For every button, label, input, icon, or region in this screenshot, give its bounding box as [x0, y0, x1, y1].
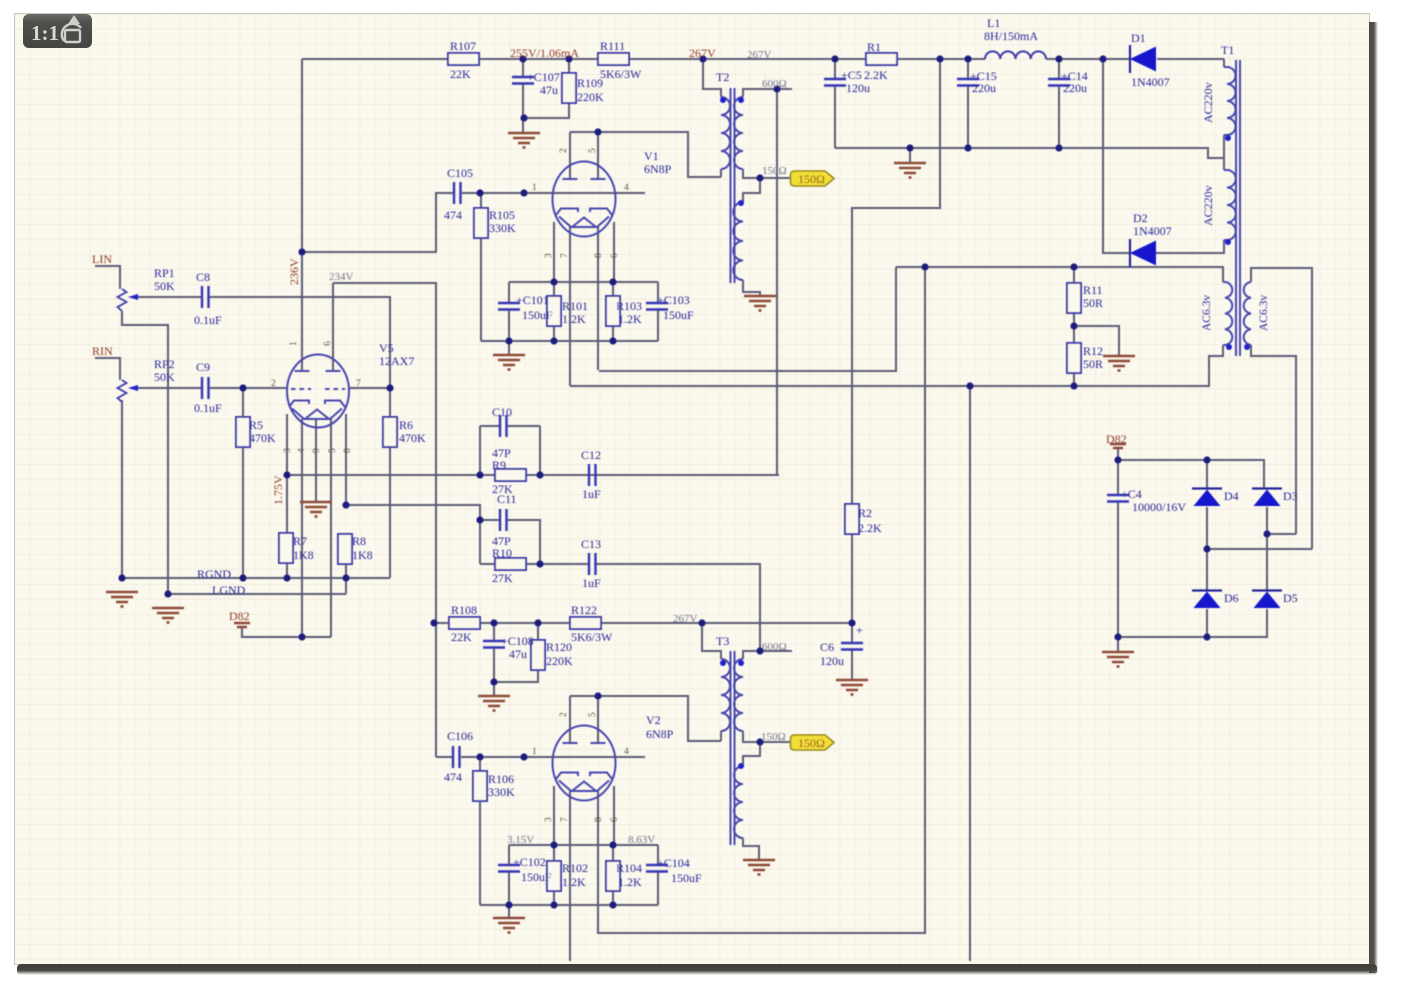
svg-text:50R: 50R: [1083, 296, 1103, 310]
svg-text:220u: 220u: [1063, 81, 1087, 95]
svg-text:267V: 267V: [673, 613, 698, 625]
svg-text:1: 1: [289, 341, 299, 346]
svg-text:2: 2: [559, 148, 569, 153]
svg-text:R107: R107: [450, 39, 476, 53]
svg-text:D5: D5: [1283, 591, 1298, 605]
svg-text:+C103: +C103: [657, 293, 690, 307]
svg-text:AC220v: AC220v: [1201, 185, 1215, 226]
svg-text:8.63V: 8.63V: [628, 834, 655, 846]
svg-text:1K8: 1K8: [293, 548, 314, 562]
svg-text:R103: R103: [616, 299, 642, 313]
svg-text:1N4007: 1N4007: [1131, 75, 1170, 89]
svg-text:50R: 50R: [1083, 357, 1103, 371]
svg-text:150Ω: 150Ω: [761, 731, 786, 743]
svg-text:1.2K: 1.2K: [618, 312, 642, 326]
svg-text:1.2K: 1.2K: [618, 875, 642, 889]
svg-text:234V: 234V: [329, 271, 354, 283]
svg-text:5K6/3W: 5K6/3W: [571, 630, 613, 644]
svg-text:R10: R10: [492, 546, 512, 560]
svg-text:1: 1: [532, 747, 537, 757]
svg-text:R105: R105: [489, 208, 515, 222]
svg-text:0.1uF: 0.1uF: [194, 313, 222, 327]
svg-text:D6: D6: [1224, 591, 1239, 605]
svg-text:150Ω: 150Ω: [798, 172, 825, 186]
svg-text:1N4007: 1N4007: [1133, 224, 1172, 238]
svg-text:4: 4: [624, 183, 629, 193]
svg-text:V2: V2: [646, 713, 661, 727]
svg-text:R101: R101: [562, 299, 588, 313]
svg-text:470K: 470K: [249, 431, 276, 445]
svg-text:120u: 120u: [820, 654, 844, 668]
svg-text:+C108: +C108: [501, 634, 534, 648]
svg-text:1.2K: 1.2K: [562, 875, 586, 889]
svg-text:R106: R106: [488, 772, 514, 786]
svg-text:6N8P: 6N8P: [644, 162, 672, 176]
svg-text:D82: D82: [1106, 432, 1127, 446]
svg-text:C9: C9: [196, 360, 210, 374]
svg-text:9: 9: [312, 448, 322, 453]
svg-text:R9: R9: [492, 458, 506, 472]
svg-text:1.75V: 1.75V: [271, 475, 285, 505]
svg-text:50K: 50K: [154, 279, 175, 293]
svg-text:C106: C106: [447, 729, 473, 743]
svg-text:RP2: RP2: [154, 357, 175, 371]
svg-text:0.1uF: 0.1uF: [194, 401, 222, 415]
svg-text:150uF: 150uF: [522, 308, 553, 322]
svg-text:R5: R5: [249, 418, 263, 432]
svg-text:R2: R2: [858, 506, 872, 520]
svg-text:1: 1: [532, 183, 537, 193]
svg-text:T3: T3: [716, 634, 729, 648]
svg-text:C13: C13: [581, 537, 601, 551]
svg-text:2.2K: 2.2K: [864, 68, 888, 82]
svg-text:22K: 22K: [451, 630, 472, 644]
svg-text:D2: D2: [1133, 211, 1148, 225]
svg-text:RP1: RP1: [154, 266, 175, 280]
svg-text:3: 3: [544, 817, 554, 822]
svg-text:2: 2: [271, 379, 276, 389]
svg-text:D82: D82: [229, 609, 250, 623]
svg-text:T2: T2: [716, 70, 729, 84]
svg-text:330K: 330K: [488, 785, 515, 799]
svg-text:22K: 22K: [450, 67, 471, 81]
svg-text:330K: 330K: [489, 221, 516, 235]
svg-text:4: 4: [624, 747, 629, 757]
svg-text:267V: 267V: [747, 49, 772, 61]
svg-text:C10: C10: [492, 405, 512, 419]
svg-text:1:1: 1:1: [31, 21, 59, 45]
svg-text:470K: 470K: [399, 431, 426, 445]
svg-text:+: +: [856, 623, 863, 637]
svg-text:150Ω: 150Ω: [762, 165, 787, 177]
svg-text:R7: R7: [293, 534, 307, 548]
svg-text:3.15V: 3.15V: [507, 834, 534, 846]
svg-text:V5: V5: [379, 341, 394, 355]
svg-text:R120: R120: [546, 640, 572, 654]
svg-text:+C101: +C101: [516, 293, 549, 307]
svg-text:600Ω: 600Ω: [762, 78, 787, 90]
svg-text:220K: 220K: [546, 654, 573, 668]
svg-text:2: 2: [559, 712, 569, 717]
svg-text:236V: 236V: [287, 258, 301, 285]
svg-text:AC6.3v: AC6.3v: [1201, 295, 1213, 331]
svg-text:600Ω: 600Ω: [762, 641, 787, 653]
svg-text:2.2K: 2.2K: [858, 521, 882, 535]
svg-text:V1: V1: [644, 149, 659, 163]
svg-text:150uF: 150uF: [521, 870, 552, 884]
svg-text:R6: R6: [399, 418, 413, 432]
svg-text:R8: R8: [352, 534, 366, 548]
svg-text:+C102: +C102: [513, 855, 546, 869]
svg-text:R122: R122: [571, 603, 597, 617]
svg-text:47u: 47u: [540, 83, 558, 97]
svg-text:AC220v: AC220v: [1201, 82, 1215, 123]
svg-text:D1: D1: [1131, 31, 1146, 45]
svg-text:C11: C11: [497, 492, 517, 506]
svg-text:255V/1.06mA: 255V/1.06mA: [510, 46, 579, 60]
svg-text:7: 7: [356, 379, 361, 389]
svg-text:1.2K: 1.2K: [562, 312, 586, 326]
svg-text:AC6.3v: AC6.3v: [1258, 295, 1270, 331]
svg-text:50K: 50K: [154, 370, 175, 384]
svg-text:R1: R1: [867, 40, 881, 54]
svg-text:+C104: +C104: [657, 856, 690, 870]
svg-text:6: 6: [323, 341, 333, 346]
svg-text:L1: L1: [987, 16, 1000, 30]
svg-text:5: 5: [588, 712, 598, 717]
svg-text:474: 474: [444, 208, 462, 222]
svg-text:47u: 47u: [509, 647, 527, 661]
svg-text:4: 4: [297, 448, 307, 453]
svg-text:150uF: 150uF: [671, 871, 702, 885]
svg-text:12AX7: 12AX7: [379, 354, 414, 368]
svg-text:C6: C6: [820, 640, 834, 654]
svg-text:C12: C12: [581, 448, 601, 462]
svg-text:R104: R104: [616, 861, 642, 875]
svg-text:5: 5: [328, 448, 338, 453]
svg-text:27K: 27K: [492, 571, 513, 585]
svg-text:8: 8: [343, 448, 353, 453]
svg-text:10000/16V: 10000/16V: [1132, 500, 1186, 514]
svg-text:C105: C105: [447, 166, 473, 180]
svg-text:+C107: +C107: [527, 70, 560, 84]
svg-text:3: 3: [283, 448, 293, 453]
svg-text:150uF: 150uF: [663, 308, 694, 322]
svg-text:6: 6: [610, 253, 620, 258]
svg-text:R12: R12: [1083, 344, 1103, 358]
svg-text:267V: 267V: [689, 46, 716, 60]
svg-text:1uF: 1uF: [582, 487, 601, 501]
svg-text:R111: R111: [600, 39, 625, 53]
svg-text:6: 6: [610, 817, 620, 822]
svg-text:D3: D3: [1283, 489, 1298, 503]
svg-text:LIN: LIN: [92, 252, 112, 266]
svg-text:7: 7: [560, 817, 570, 822]
svg-text:R11: R11: [1083, 283, 1103, 297]
svg-text:3: 3: [544, 253, 554, 258]
svg-text:RIN: RIN: [92, 344, 113, 358]
svg-text:R108: R108: [451, 603, 477, 617]
svg-text:C8: C8: [196, 270, 210, 284]
svg-text:150Ω: 150Ω: [798, 736, 825, 750]
svg-text:R102: R102: [562, 861, 588, 875]
svg-text:220u: 220u: [972, 81, 996, 95]
svg-text:8: 8: [594, 253, 604, 258]
svg-text:6N8P: 6N8P: [646, 727, 674, 741]
svg-text:120u: 120u: [846, 81, 870, 95]
svg-text:1uF: 1uF: [582, 576, 601, 590]
svg-text:220K: 220K: [577, 90, 604, 104]
svg-text:7: 7: [560, 253, 570, 258]
svg-text:RGND: RGND: [197, 567, 231, 581]
svg-text:1K8: 1K8: [352, 548, 373, 562]
svg-text:474: 474: [444, 770, 462, 784]
svg-text:T1: T1: [1221, 43, 1234, 57]
svg-text:8: 8: [594, 817, 604, 822]
svg-text:5: 5: [588, 148, 598, 153]
svg-text:+C4: +C4: [1121, 487, 1142, 501]
svg-text:8H/150mA: 8H/150mA: [984, 29, 1038, 43]
svg-text:5K6/3W: 5K6/3W: [600, 67, 642, 81]
svg-text:LGND: LGND: [212, 583, 246, 597]
svg-text:+C5: +C5: [841, 68, 862, 82]
svg-text:D4: D4: [1224, 489, 1239, 503]
